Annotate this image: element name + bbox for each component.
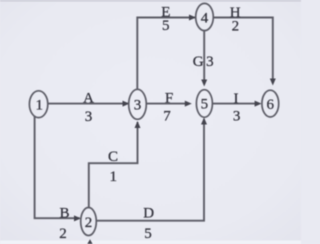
svg-text:D: D <box>143 205 154 221</box>
arrowhead F into node5 <box>185 101 192 107</box>
arrowhead C into node3 <box>135 121 141 128</box>
arrowhead D into node5 <box>201 118 207 125</box>
arrowhead B into node2 <box>74 215 81 221</box>
arrowhead G into node5 <box>201 80 207 87</box>
wire A: node1 to node3 <box>48 103 128 105</box>
node 5 <box>196 90 212 118</box>
svg-text:3: 3 <box>134 98 142 114</box>
svg-text:I: I <box>234 91 239 107</box>
wire D: node2 right then up to node5 <box>96 119 204 221</box>
wire I: node5 to node6 <box>213 103 260 105</box>
svg-text:B: B <box>59 205 69 221</box>
svg-text:7: 7 <box>163 109 171 125</box>
node 3 <box>129 89 147 119</box>
wire E: node3 up then right to node4 <box>137 18 195 90</box>
node 2 <box>81 208 97 236</box>
scan top border <box>0 0 301 2</box>
wire G: node4 down to node5 <box>203 31 205 84</box>
svg-text:4: 4 <box>201 11 209 27</box>
wire B: node1 down then right to node2 <box>35 116 80 218</box>
svg-text:5: 5 <box>201 97 209 113</box>
arrowhead I into node6 <box>255 101 262 107</box>
svg-text:3: 3 <box>233 109 241 125</box>
svg-text:6: 6 <box>267 97 275 113</box>
svg-text:C: C <box>108 149 118 165</box>
svg-text:A: A <box>83 90 94 106</box>
svg-text:F: F <box>165 91 173 107</box>
svg-text:2: 2 <box>232 19 240 35</box>
arrowhead A into node3 <box>123 101 130 107</box>
node 4 <box>196 3 214 30</box>
node 1 <box>29 91 47 118</box>
svg-text:1: 1 <box>110 169 118 185</box>
svg-text:5: 5 <box>162 18 170 34</box>
arrowhead E into node4 <box>189 15 196 21</box>
wire C: node2 up, right, up to node3 <box>89 122 138 208</box>
svg-text:3: 3 <box>85 109 93 125</box>
svg-text:2: 2 <box>85 215 93 231</box>
svg-text:2: 2 <box>59 226 67 242</box>
wire F: node3 to node5 <box>147 103 190 105</box>
node 6 <box>262 90 279 117</box>
svg-text:3: 3 <box>206 54 214 70</box>
svg-text:5: 5 <box>144 226 152 242</box>
scan bottom light band <box>0 241 301 244</box>
wire H: node4 right then down to node6 <box>214 18 273 83</box>
svg-text:G: G <box>193 54 204 70</box>
svg-text:1: 1 <box>35 98 43 114</box>
stray arrow mark below node2 <box>87 239 92 244</box>
arrowhead H into node6 <box>270 79 276 86</box>
